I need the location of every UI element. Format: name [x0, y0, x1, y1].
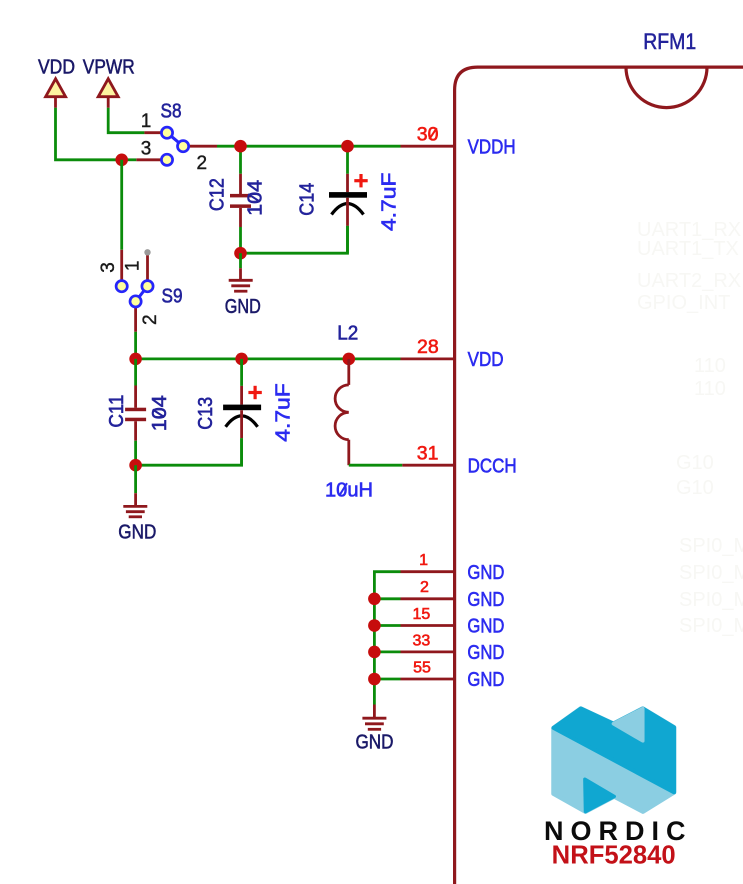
svg-text:NRF52840: NRF52840 [552, 842, 676, 870]
junction GND pin33 [368, 646, 381, 659]
capacitor C12 [207, 146, 267, 253]
ground GND3 [356, 705, 394, 754]
svg-text:31: 31 [417, 442, 439, 464]
ghost net labels [637, 219, 743, 637]
capacitor C14 polarized [297, 146, 401, 253]
svg-text:L2: L2 [337, 323, 358, 345]
wire GND pin 2 [374, 597, 400, 600]
svg-text:GND: GND [467, 562, 504, 584]
svg-text:VDDH: VDDH [468, 137, 516, 159]
GND pin bus [374, 572, 400, 705]
junction GND pin55 [368, 673, 381, 686]
pin 33 line [401, 651, 455, 654]
svg-text:2: 2 [420, 579, 429, 596]
Nordic logo [554, 709, 675, 812]
power symbol VPWR [83, 57, 135, 108]
svg-text:2: 2 [197, 153, 208, 174]
svg-text:GPIO_INT: GPIO_INT [637, 292, 730, 314]
svg-text:GND: GND [467, 589, 504, 611]
svg-text:33: 33 [413, 632, 431, 649]
svg-text:VDD: VDD [468, 349, 504, 371]
svg-text:55: 55 [413, 659, 431, 676]
pin 2 line [401, 597, 455, 600]
junction C12 bottom [234, 247, 247, 260]
IC RFM1 border [455, 67, 743, 884]
wire row VDDH [217, 145, 401, 148]
svg-text:G10: G10 [676, 477, 714, 499]
svg-text:S9: S9 [162, 286, 183, 308]
svg-text:SPI0_M: SPI0_M [679, 562, 743, 584]
svg-text:GND: GND [467, 669, 504, 691]
wire C12-C14 bottom [241, 226, 348, 253]
switch S8 [136, 101, 217, 175]
junction C11 bottom [129, 459, 142, 472]
wire C11-C13 bottom [136, 438, 242, 465]
svg-text:C14: C14 [297, 183, 319, 216]
ground GND2 [118, 465, 156, 543]
svg-text:GND: GND [356, 731, 394, 753]
wire GND pin 55 [374, 678, 400, 681]
svg-text:10uH: 10uH [325, 480, 373, 502]
pin number 30 [417, 124, 439, 146]
svg-text:VDD: VDD [38, 57, 75, 79]
svg-text:RFM1: RFM1 [643, 29, 696, 54]
junction C14 top [341, 140, 354, 153]
svg-text:GND: GND [467, 616, 504, 638]
wire VDD horizontal [122, 158, 137, 161]
pin 31 line [402, 464, 454, 467]
capacitor C13 polarized [195, 359, 295, 465]
svg-text:S8: S8 [161, 101, 182, 123]
svg-text:4.7uF: 4.7uF [379, 173, 401, 232]
svg-text:28: 28 [417, 336, 439, 358]
inductor L2 [325, 323, 373, 502]
svg-text:4.7uF: 4.7uF [273, 383, 295, 442]
svg-text:110: 110 [694, 355, 726, 377]
pin 55 line [401, 678, 455, 681]
svg-text:VPWR: VPWR [83, 57, 135, 79]
wire VPWR stem [108, 108, 144, 133]
wire VDD stem [56, 108, 122, 160]
svg-text:GND: GND [225, 296, 261, 318]
pin 30 line [401, 145, 455, 148]
svg-text:3: 3 [141, 139, 152, 160]
switch S9 [98, 249, 183, 332]
ground GND1 [225, 253, 261, 318]
pin 15 line [401, 624, 455, 627]
wire GND pin 33 [374, 651, 400, 654]
svg-text:3: 3 [98, 262, 119, 273]
svg-text:2: 2 [140, 314, 161, 325]
junction row28 left [129, 353, 142, 366]
svg-text:1: 1 [123, 261, 144, 272]
svg-text:UART1_TX: UART1_TX [637, 238, 739, 260]
svg-text:1: 1 [141, 111, 152, 132]
junction GND pin2 [368, 593, 381, 606]
svg-text:SPI0_M: SPI0_M [679, 589, 743, 611]
junction GND pin15 [368, 619, 381, 632]
svg-text:30: 30 [417, 124, 439, 146]
svg-text:UART2_RX: UART2_RX [637, 270, 741, 292]
svg-text:G10: G10 [676, 452, 714, 474]
wire GND pin 15 [374, 624, 400, 627]
junction C12 top [234, 140, 247, 153]
svg-text:GND: GND [118, 522, 156, 544]
junction row28 L2 [343, 353, 356, 366]
svg-text:C11: C11 [106, 395, 128, 428]
capacitor C11 [106, 359, 171, 465]
wire S9 to row VDD [134, 332, 137, 359]
pin 1 line [401, 570, 455, 573]
svg-text:DCCH: DCCH [468, 455, 517, 477]
pin 28 line [401, 357, 455, 360]
svg-text:C12: C12 [207, 178, 229, 211]
svg-text:15: 15 [413, 606, 431, 623]
svg-text:C13: C13 [195, 397, 217, 430]
svg-text:SPI0_M: SPI0_M [679, 615, 743, 637]
junction row28 C13 [235, 353, 248, 366]
wire row VDD(28) [136, 357, 401, 360]
svg-text:SPI0_M: SPI0_M [679, 535, 743, 557]
svg-text:110: 110 [694, 378, 726, 400]
svg-text:1: 1 [419, 552, 428, 569]
power symbol VDD [38, 57, 75, 108]
wire S9 column [120, 160, 123, 250]
wire L2 bottom [349, 464, 403, 467]
junction at VDD/S8 [115, 154, 128, 167]
svg-text:GND: GND [467, 642, 504, 664]
